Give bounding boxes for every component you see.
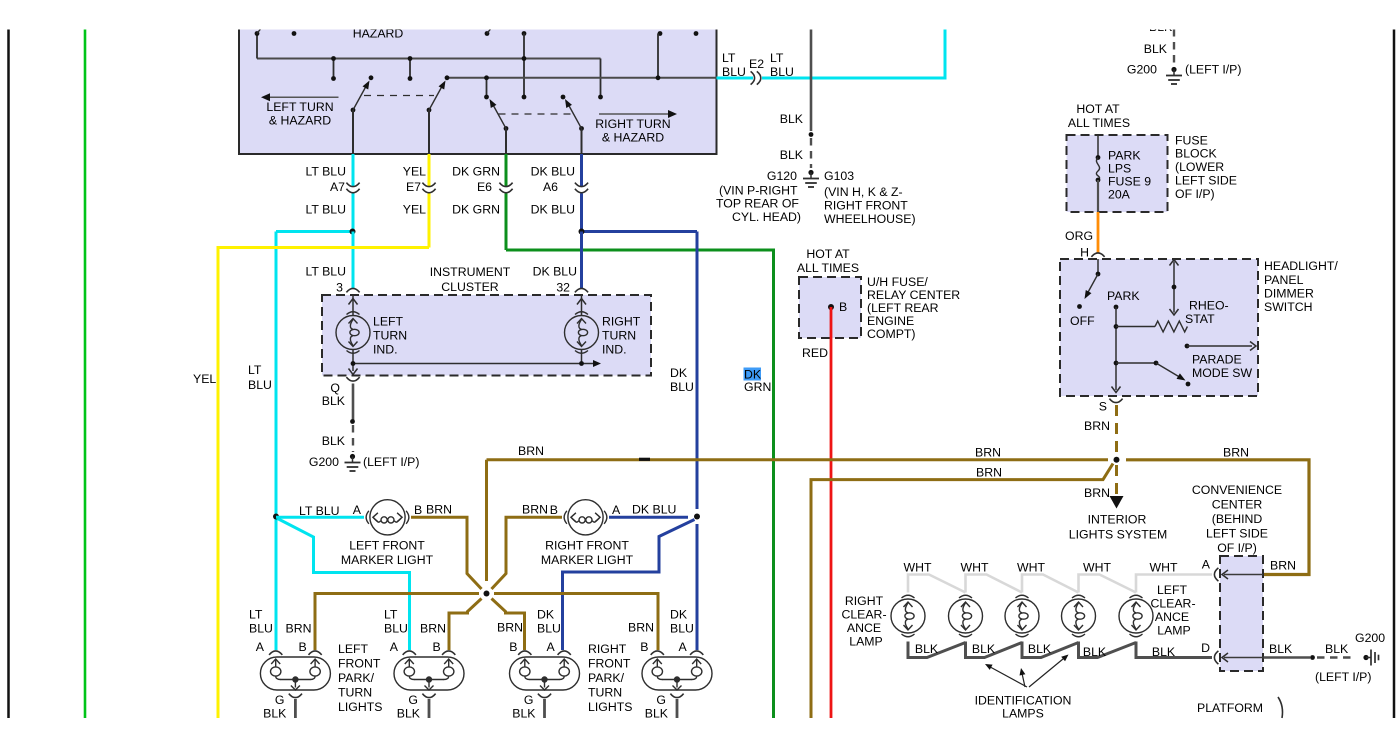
svg-text:G: G — [656, 693, 666, 707]
svg-text:TURN: TURN — [338, 686, 372, 700]
svg-text:BLOCK: BLOCK — [1175, 147, 1217, 161]
svg-text:OFF: OFF — [1070, 314, 1095, 328]
svg-text:A7: A7 — [330, 180, 345, 194]
svg-text:RIGHT: RIGHT — [845, 594, 884, 608]
svg-text:IND.: IND. — [602, 343, 627, 357]
svg-text:HOT AT: HOT AT — [806, 247, 850, 261]
svg-text:LEFT TURN: LEFT TURN — [266, 100, 333, 114]
clearance lamp 4 — [1062, 595, 1096, 637]
pin D (convenience center) — [1214, 651, 1218, 664]
wire BLK dashed to ground — [810, 138, 812, 168]
svg-text:WHEELHOUSE): WHEELHOUSE) — [824, 212, 916, 226]
svg-text:ALL TIMES: ALL TIMES — [797, 261, 859, 275]
svg-text:FUSE 9: FUSE 9 — [1108, 175, 1151, 189]
identification lamps arrows — [988, 666, 1028, 688]
fuse PARK LPS FUSE 9 20A — [1097, 135, 1099, 158]
wire BLK clearance lamp 5 — [1136, 642, 1212, 658]
wire rail2 drop at 486.5 — [486, 78, 488, 97]
park/turn lamp lamp2 — [394, 657, 464, 690]
svg-text:CLEAR-: CLEAR- — [1150, 597, 1195, 611]
wire BLK from pin Q — [352, 384, 355, 422]
wire WHT clearance lamp 4 — [1079, 575, 1137, 593]
wire YEL horizontal — [218, 248, 429, 719]
wire RED — [830, 307, 833, 718]
node BRN star junction — [484, 591, 490, 597]
svg-text:PARK/: PARK/ — [338, 671, 375, 685]
arrow A pass-through — [1224, 574, 1263, 576]
connector A7 — [346, 183, 359, 187]
svg-text:BRN: BRN — [497, 621, 523, 635]
svg-text:LEFT FRONT: LEFT FRONT — [349, 539, 425, 553]
arrow cluster common out — [593, 360, 601, 367]
svg-text:DIMMER: DIMMER — [1264, 287, 1314, 301]
svg-text:PARK: PARK — [1108, 149, 1141, 163]
svg-text:B: B — [509, 640, 517, 654]
U/H fuse/relay center box — [799, 277, 861, 338]
svg-text:LT BLU: LT BLU — [299, 504, 340, 518]
svg-text:PARADE: PARADE — [1192, 353, 1242, 367]
ground G200 (left I/P, horizontal) — [1363, 655, 1368, 660]
svg-text:BLK: BLK — [263, 707, 287, 721]
svg-text:OF I/P): OF I/P) — [1175, 187, 1215, 201]
park/turn lamp lamp4 pin bumps — [651, 651, 664, 655]
node LT BLU junction — [350, 229, 356, 235]
node cluster common right — [579, 361, 584, 366]
park/turn lamp lamp4 — [642, 657, 712, 690]
svg-text:COMPT): COMPT) — [867, 327, 916, 341]
wire BLK ground lamp3 — [543, 699, 546, 718]
svg-text:E6: E6 — [477, 180, 492, 194]
ground G200 (left I/P) — [350, 454, 355, 459]
right turn indicator lamp — [581, 295, 583, 315]
svg-text:(LEFT I/P): (LEFT I/P) — [1315, 670, 1371, 684]
node BLK splice — [809, 132, 814, 137]
switch arm 4 (DK BLU) — [579, 126, 584, 131]
svg-text:PARK/: PARK/ — [588, 671, 625, 685]
wire DK GRN horizontal — [506, 250, 774, 718]
wire BRN dashed from S — [1115, 405, 1118, 454]
svg-text:A: A — [256, 640, 265, 654]
svg-text:PLATFORM: PLATFORM — [1197, 701, 1263, 715]
svg-text:A: A — [679, 640, 688, 654]
svg-text:BLK: BLK — [1144, 42, 1168, 56]
svg-text:BLU: BLU — [670, 380, 694, 394]
wire DK BLU horizontal to right — [582, 230, 698, 233]
wire WHT clearance lamp 1 — [908, 575, 966, 593]
black tick on BRN bus — [639, 458, 650, 461]
svg-text:CLEAR-: CLEAR- — [841, 608, 886, 622]
svg-text:(LEFT I/P): (LEFT I/P) — [1185, 63, 1241, 77]
wire ORG — [1097, 212, 1100, 253]
svg-text:DK BLU: DK BLU — [531, 203, 575, 217]
svg-text:BRN: BRN — [975, 446, 1001, 460]
svg-text:INTERIOR: INTERIOR — [1088, 513, 1147, 527]
svg-text:BLU: BLU — [384, 622, 408, 636]
svg-text:G: G — [524, 693, 534, 707]
svg-text:ORG: ORG — [1065, 229, 1093, 243]
arrow interior lights system — [1110, 496, 1124, 509]
svg-text:TURN: TURN — [588, 686, 622, 700]
connector E2 — [751, 71, 755, 84]
rheostat wiper arrow — [1173, 262, 1175, 313]
svg-text:BRN: BRN — [1084, 419, 1110, 433]
svg-text:BLK: BLK — [512, 707, 536, 721]
connector E7 — [422, 183, 435, 187]
rheostat — [1116, 326, 1155, 328]
wire BLK ground lamp2 — [428, 699, 431, 718]
svg-text:TURN: TURN — [602, 329, 636, 343]
svg-text:DK BLU: DK BLU — [533, 265, 577, 279]
svg-text:YEL: YEL — [193, 372, 216, 386]
wire BRN star right to lamp4 B — [494, 594, 658, 651]
svg-text:G103: G103 — [824, 169, 854, 183]
arrow cluster ground out — [349, 369, 358, 375]
svg-text:MARKER LIGHT: MARKER LIGHT — [541, 553, 634, 567]
svg-text:ALL TIMES: ALL TIMES — [1068, 116, 1130, 130]
wire BRN bus 1 right — [1126, 460, 1309, 575]
svg-text:WHT: WHT — [1150, 561, 1178, 575]
svg-text:BLK: BLK — [322, 394, 346, 408]
convenience center box — [1220, 556, 1263, 671]
svg-text:D: D — [1201, 641, 1210, 655]
node BRN junction — [1114, 457, 1120, 463]
wire DK BLU from switch — [580, 154, 583, 186]
svg-text:DK: DK — [537, 608, 555, 622]
svg-text:3: 3 — [336, 281, 343, 295]
park/turn lamp lamp3 pin bumps — [518, 651, 531, 655]
wire YEL from switch — [428, 154, 431, 186]
svg-text:G200: G200 — [1127, 63, 1157, 77]
wire LT BLU to left marker — [276, 516, 364, 519]
wire BRN bus 2 — [811, 464, 1113, 719]
node B terminal — [828, 304, 834, 310]
wire BLK dashed from top — [1173, 29, 1175, 65]
svg-text:HEADLIGHT/: HEADLIGHT/ — [1264, 259, 1338, 273]
mechanical link dashes left — [364, 95, 434, 97]
svg-text:BLK: BLK — [780, 112, 804, 126]
svg-text:BLK: BLK — [1269, 642, 1293, 656]
svg-text:G: G — [408, 693, 418, 707]
svg-text:BLK: BLK — [1028, 642, 1052, 656]
wire LT BLU from E2 to riser — [762, 29, 945, 78]
svg-text:INSTRUMENT: INSTRUMENT — [430, 265, 511, 279]
wire DK GRN below E6 — [505, 194, 508, 251]
svg-text:RHEO-: RHEO- — [1189, 299, 1229, 313]
wire rail 1 left riser — [256, 34, 258, 59]
svg-text:GRN: GRN — [744, 380, 771, 394]
svg-text:B: B — [550, 503, 558, 517]
wire YEL below E7 — [428, 194, 431, 248]
svg-text:RELAY CENTER: RELAY CENTER — [867, 288, 960, 302]
wire DK BLU diagonal branch — [563, 520, 695, 651]
mechanical link dashes right — [499, 113, 574, 115]
wire WHT clearance lamp 3 — [1022, 575, 1079, 593]
node top dot 6 — [694, 31, 699, 36]
svg-text:BLK: BLK — [780, 148, 804, 162]
wire BRN star to lamp2 B — [449, 599, 482, 651]
svg-text:BRN: BRN — [286, 622, 312, 636]
svg-text:TOP REAR OF: TOP REAR OF — [716, 197, 799, 211]
PARK contact and riser — [1114, 305, 1119, 310]
wire BRN bus 1 left — [487, 458, 1109, 461]
wire BRN from right marker B — [492, 517, 563, 589]
svg-text:RIGHT: RIGHT — [602, 315, 641, 329]
svg-text:(VIN H, K & Z-: (VIN H, K & Z- — [824, 185, 903, 199]
turn/hazard switch box — [239, 8, 717, 154]
svg-text:BRN: BRN — [976, 466, 1002, 480]
svg-text:LIGHTS SYSTEM: LIGHTS SYSTEM — [1069, 528, 1167, 542]
svg-text:MODE SW: MODE SW — [1192, 366, 1253, 380]
svg-text:DK: DK — [670, 608, 688, 622]
svg-text:H: H — [1080, 246, 1089, 260]
svg-text:BLU: BLU — [770, 65, 794, 79]
svg-text:DK BLU: DK BLU — [632, 503, 676, 517]
left turn indicator lamp — [352, 295, 354, 315]
svg-text:BLK: BLK — [1152, 645, 1176, 659]
park/turn lamp lamp1 pin bumps — [269, 651, 282, 655]
wire BLK from D — [1264, 656, 1311, 659]
svg-text:RIGHT FRONT: RIGHT FRONT — [545, 539, 629, 553]
wire cluster common — [352, 350, 354, 371]
svg-text:MARKER LIGHT: MARKER LIGHT — [341, 553, 434, 567]
svg-text:G: G — [275, 693, 285, 707]
svg-text:DK GRN: DK GRN — [452, 203, 500, 217]
svg-text:ENGINE: ENGINE — [867, 314, 914, 328]
svg-text:20A: 20A — [1108, 188, 1131, 202]
wire: right page border — [1393, 29, 1396, 718]
wire WHT clearance lamp 5 — [1136, 575, 1212, 593]
node BLK splice — [350, 419, 355, 424]
wire BLK dashed to G200 — [1317, 656, 1353, 658]
svg-text:WHT: WHT — [1083, 561, 1111, 575]
svg-text:FRONT: FRONT — [588, 657, 631, 671]
svg-text:CENTER: CENTER — [1212, 498, 1263, 512]
svg-text:YEL: YEL — [403, 165, 426, 179]
svg-text:BRN: BRN — [1270, 559, 1296, 573]
node top dot 4 — [522, 31, 527, 36]
parade output arrow — [1185, 344, 1190, 349]
svg-text:STAT: STAT — [1185, 312, 1215, 326]
connector A6 — [575, 183, 588, 187]
svg-text:A: A — [390, 640, 399, 654]
svg-text:TURN: TURN — [373, 329, 407, 343]
parade mode switch arm — [1116, 362, 1156, 364]
wire DK BLU to right marker A — [609, 516, 688, 519]
svg-text:BRN: BRN — [1084, 486, 1110, 500]
wire BLK clearance lamp 4 — [1079, 642, 1137, 658]
pin A (convenience center) — [1214, 568, 1218, 581]
svg-text:BLU: BLU — [537, 622, 561, 636]
wire feed through rail1 at 524 — [523, 34, 525, 98]
svg-text:ANCE: ANCE — [847, 621, 881, 635]
wire DK BLU down to cluster pin 32 — [580, 232, 583, 289]
svg-text:CLUSTER: CLUSTER — [441, 280, 499, 294]
wire LT BLU left vertical — [275, 232, 278, 651]
svg-text:BRN: BRN — [518, 444, 544, 458]
svg-text:RED: RED — [802, 346, 828, 360]
clearance lamp 2 — [949, 595, 983, 637]
wire BRN star left to lamp1 B — [315, 594, 479, 651]
wire BRN dashed to interior lights — [1115, 465, 1118, 497]
node DK BLU junction — [579, 229, 585, 235]
wire BRN bus drop to star — [485, 460, 488, 581]
svg-text:LT BLU: LT BLU — [305, 203, 346, 217]
svg-text:A: A — [547, 640, 556, 654]
headlight/panel dimmer switch box — [1060, 259, 1258, 396]
pin S — [1109, 399, 1122, 403]
svg-text:HOT AT: HOT AT — [1076, 102, 1120, 116]
svg-text:OF I/P): OF I/P) — [1217, 541, 1257, 555]
svg-text:BRN: BRN — [1223, 446, 1249, 460]
svg-text:DK: DK — [670, 366, 688, 380]
svg-text:E2: E2 — [749, 57, 764, 71]
svg-text:FRONT: FRONT — [338, 657, 381, 671]
svg-text:BRN: BRN — [420, 622, 446, 636]
svg-text:U/H FUSE/: U/H FUSE/ — [867, 275, 928, 289]
wire BLK clearance lamp 2 — [966, 642, 1023, 658]
svg-text:BRN: BRN — [426, 503, 452, 517]
wire LT BLU down to cluster pin 3 — [352, 232, 355, 289]
park/turn lamp lamp3 — [510, 657, 580, 690]
svg-text:(LEFT REAR: (LEFT REAR — [867, 301, 939, 315]
svg-text:YEL: YEL — [403, 203, 426, 217]
node BLK splice — [1310, 655, 1315, 660]
svg-text:BLU: BLU — [670, 622, 694, 636]
wire LT BLU below A7 — [352, 194, 355, 232]
wire BLK clearance lamp 1 — [908, 642, 966, 658]
right turn direction arrow — [599, 113, 673, 115]
svg-text:A: A — [353, 503, 362, 517]
svg-text:BLK: BLK — [1083, 645, 1107, 659]
svg-text:BLK: BLK — [1325, 642, 1349, 656]
svg-text:CYL. HEAD): CYL. HEAD) — [732, 210, 801, 224]
switch arm 3 (DK GRN) — [504, 126, 509, 131]
svg-text:B: B — [299, 640, 307, 654]
svg-text:G200: G200 — [309, 455, 339, 469]
fuse block box — [1067, 135, 1168, 212]
instrument cluster box — [322, 295, 651, 376]
svg-text:LT BLU: LT BLU — [305, 165, 346, 179]
ground G120/G103 — [808, 170, 813, 175]
svg-text:BLK: BLK — [322, 434, 346, 448]
svg-text:CONVENIENCE: CONVENIENCE — [1192, 483, 1282, 497]
svg-text:& HAZARD: & HAZARD — [602, 131, 664, 145]
node LT BLU marker junction — [273, 514, 279, 520]
svg-text:SWITCH: SWITCH — [1264, 300, 1313, 314]
svg-text:IND.: IND. — [373, 343, 398, 357]
wire DK BLU below A6 — [580, 194, 583, 232]
svg-text:BRN: BRN — [522, 503, 548, 517]
right front marker light — [564, 500, 607, 535]
wire BLK dashed to G200 — [352, 425, 354, 452]
svg-text:LT: LT — [722, 51, 736, 65]
svg-text:(LEFT I/P): (LEFT I/P) — [363, 455, 419, 469]
pin Q — [346, 377, 359, 381]
svg-text:LAMPS: LAMPS — [1002, 707, 1044, 721]
clearance lamp 5 — [1119, 595, 1153, 637]
wire DK BLU right vertical — [696, 232, 699, 510]
svg-text:& HAZARD: & HAZARD — [269, 114, 331, 128]
svg-text:E7: E7 — [406, 180, 421, 194]
svg-text:G120: G120 — [767, 169, 797, 183]
node top dot 1 — [255, 31, 260, 36]
wire LT BLU horizontal to left — [276, 230, 353, 233]
svg-text:(BEHIND: (BEHIND — [1212, 512, 1263, 526]
svg-text:LAMP: LAMP — [1157, 624, 1191, 638]
wire rail 2 — [447, 77, 717, 79]
wire LT BLU diagonal branch — [278, 519, 410, 651]
clearance lamp 1 — [891, 595, 925, 637]
wire: left page border — [7, 29, 10, 718]
wire rail2 riser at 658 — [657, 34, 659, 78]
svg-text:LPS: LPS — [1108, 162, 1131, 176]
wire DK GRN from switch — [505, 154, 508, 186]
arrow D pass-through — [1224, 657, 1263, 659]
svg-text:BLU: BLU — [248, 378, 272, 392]
svg-text:RIGHT TURN: RIGHT TURN — [595, 117, 670, 131]
wire BLK ground lamp1 — [294, 699, 297, 718]
svg-text:BRN: BRN — [628, 621, 654, 635]
svg-text:LEFT SIDE: LEFT SIDE — [1175, 174, 1237, 188]
left front marker light — [366, 500, 409, 535]
node top dot 5 — [658, 31, 663, 36]
svg-text:LT: LT — [249, 608, 263, 622]
svg-text:BLK: BLK — [645, 707, 669, 721]
wire stub (clipped) — [1278, 697, 1283, 718]
label DK GRN with selection highlight — [744, 368, 762, 381]
wire BLK vertical from top — [810, 29, 813, 131]
svg-text:B: B — [839, 300, 847, 314]
svg-text:LT: LT — [384, 608, 398, 622]
svg-text:Q: Q — [330, 381, 340, 395]
svg-text:RIGHT: RIGHT — [588, 642, 627, 656]
svg-text:LIGHTS: LIGHTS — [588, 700, 632, 714]
OFF switch arm — [1097, 259, 1099, 274]
svg-text:LIGHTS: LIGHTS — [338, 700, 382, 714]
svg-text:WHT: WHT — [961, 561, 989, 575]
svg-text:BLU: BLU — [249, 622, 273, 636]
svg-text:LEFT SIDE: LEFT SIDE — [1206, 527, 1268, 541]
park/turn lamp lamp1 — [260, 657, 330, 690]
wire LT BLU to E2 — [717, 77, 754, 80]
svg-text:DK BLU: DK BLU — [531, 165, 575, 179]
wire rail 1 — [257, 58, 601, 60]
svg-text:LEFT: LEFT — [373, 315, 404, 329]
svg-text:B: B — [433, 640, 441, 654]
node top dot 2 — [292, 31, 297, 36]
node contact dot 563 — [561, 95, 566, 100]
wire drop to hazard contact 1 — [333, 59, 335, 79]
svg-text:A: A — [1202, 558, 1211, 572]
svg-text:LT: LT — [770, 51, 784, 65]
wire drop to hazard contact 2 — [409, 59, 411, 79]
switch arm 1 (LT BLU) — [351, 108, 356, 113]
wire DK BLU below junction — [696, 524, 699, 650]
svg-text:S: S — [1099, 400, 1107, 414]
svg-text:(LOWER: (LOWER — [1175, 160, 1224, 174]
svg-text:B: B — [640, 640, 648, 654]
svg-text:BLK: BLK — [915, 642, 939, 656]
svg-text:A6: A6 — [543, 180, 558, 194]
svg-text:ANCE: ANCE — [1155, 610, 1189, 624]
svg-text:PARK: PARK — [1107, 289, 1140, 303]
wire BLK clearance lamp 3 — [1022, 642, 1079, 658]
connector E6 — [499, 183, 512, 187]
svg-text:PANEL: PANEL — [1264, 273, 1304, 287]
svg-text:(VIN P-RIGHT: (VIN P-RIGHT — [719, 184, 798, 198]
svg-text:LEFT: LEFT — [1157, 583, 1188, 597]
wire WHT clearance lamp 2 — [966, 575, 1023, 593]
